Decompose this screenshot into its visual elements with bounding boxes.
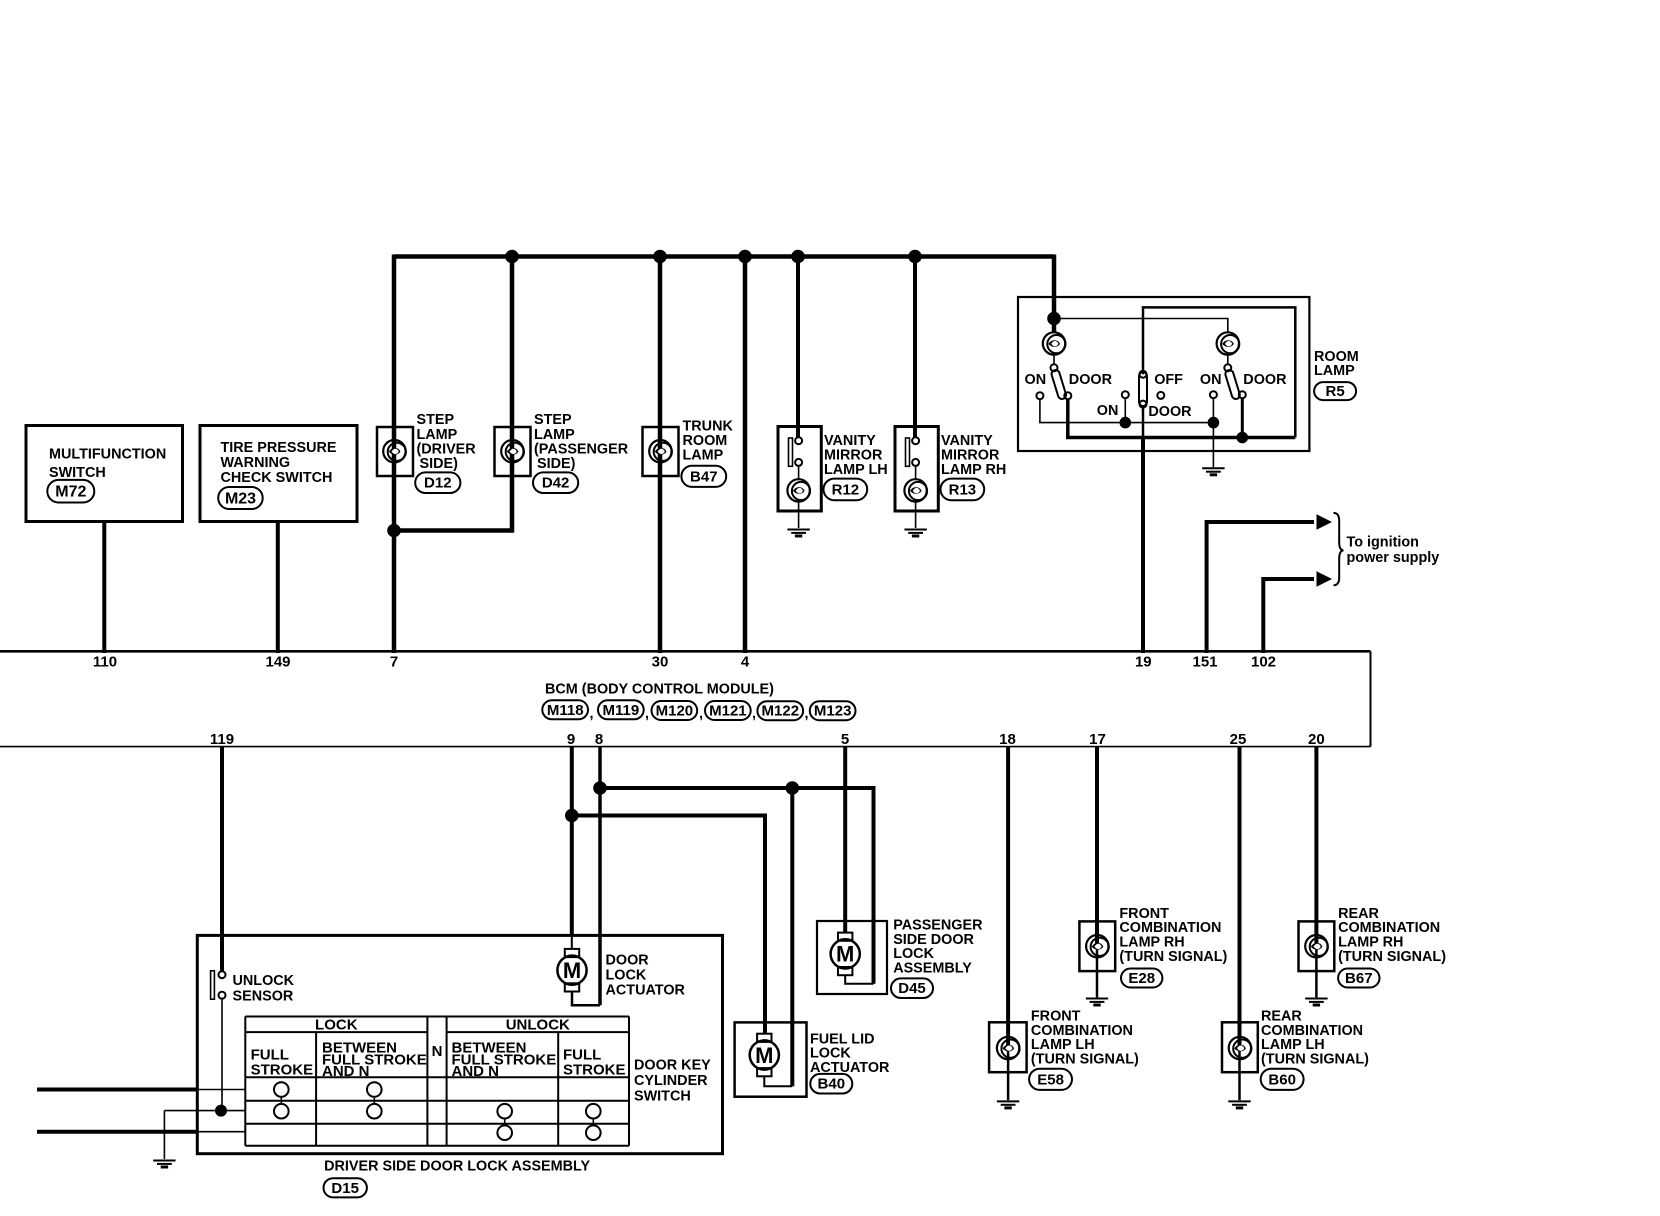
svg-text:19: 19 xyxy=(1135,654,1152,671)
svg-text:4: 4 xyxy=(741,654,750,671)
svg-text:D15: D15 xyxy=(331,1180,359,1197)
svg-text:M118: M118 xyxy=(547,702,584,719)
svg-text:R13: R13 xyxy=(949,482,977,499)
svg-text:AND N: AND N xyxy=(452,1063,500,1080)
svg-text:119: 119 xyxy=(210,731,234,748)
svg-text:ON: ON xyxy=(1097,403,1119,419)
svg-text:102: 102 xyxy=(1251,654,1276,671)
svg-text:LAMP: LAMP xyxy=(1314,363,1355,379)
svg-text:M72: M72 xyxy=(55,484,86,501)
svg-text:DOOR: DOOR xyxy=(1148,404,1192,420)
svg-text:20: 20 xyxy=(1308,731,1325,748)
svg-text:OFF: OFF xyxy=(1154,372,1183,388)
svg-text:,: , xyxy=(590,706,594,722)
svg-text:8: 8 xyxy=(595,731,603,748)
svg-text:SWITCH: SWITCH xyxy=(634,1089,691,1105)
svg-text:R5: R5 xyxy=(1326,383,1345,400)
svg-text:,: , xyxy=(752,706,756,722)
svg-text:(TURN SIGNAL): (TURN SIGNAL) xyxy=(1119,949,1227,965)
svg-text:UNLOCK: UNLOCK xyxy=(233,973,295,989)
svg-text:CHECK SWITCH: CHECK SWITCH xyxy=(221,470,333,486)
svg-text:BCM (BODY CONTROL MODULE): BCM (BODY CONTROL MODULE) xyxy=(545,682,774,698)
svg-text:AND N: AND N xyxy=(322,1063,370,1080)
svg-text:,: , xyxy=(805,706,809,722)
svg-text:5: 5 xyxy=(841,731,849,748)
svg-text:30: 30 xyxy=(652,654,669,671)
svg-text:151: 151 xyxy=(1192,654,1217,671)
svg-text:M122: M122 xyxy=(762,703,800,720)
svg-text:SWITCH: SWITCH xyxy=(49,465,106,481)
svg-text:E28: E28 xyxy=(1128,970,1155,987)
svg-text:D12: D12 xyxy=(424,475,452,492)
svg-text:LAMP: LAMP xyxy=(683,448,724,464)
svg-text:STEP: STEP xyxy=(534,412,572,428)
svg-text:M119: M119 xyxy=(603,702,640,719)
svg-text:B60: B60 xyxy=(1268,1072,1296,1089)
svg-text:power supply: power supply xyxy=(1347,550,1440,566)
svg-text:SENSOR: SENSOR xyxy=(233,989,294,1005)
svg-text:E58: E58 xyxy=(1037,1072,1064,1089)
svg-text:(TURN SIGNAL): (TURN SIGNAL) xyxy=(1261,1051,1369,1067)
svg-text:D42: D42 xyxy=(542,475,570,492)
svg-text:M121: M121 xyxy=(709,703,747,720)
svg-text:UNLOCK: UNLOCK xyxy=(506,1017,570,1034)
svg-text:ACTUATOR: ACTUATOR xyxy=(606,982,686,998)
svg-text:ASSEMBLY: ASSEMBLY xyxy=(893,960,972,976)
svg-text:TIRE PRESSURE: TIRE PRESSURE xyxy=(221,440,337,456)
svg-text:LOCK: LOCK xyxy=(606,967,647,983)
svg-text:To ignition: To ignition xyxy=(1347,535,1419,551)
svg-text:STROKE: STROKE xyxy=(563,1061,626,1078)
svg-text:D45: D45 xyxy=(898,980,926,997)
svg-text:LAMP LH: LAMP LH xyxy=(824,462,888,478)
svg-text:DOOR: DOOR xyxy=(1243,372,1287,388)
svg-text:B40: B40 xyxy=(818,1076,846,1093)
svg-text:B67: B67 xyxy=(1345,970,1373,987)
svg-text:110: 110 xyxy=(93,654,117,671)
svg-text:17: 17 xyxy=(1089,731,1106,748)
svg-text:,: , xyxy=(699,706,703,722)
svg-text:DRIVER SIDE DOOR LOCK ASSEMBLY: DRIVER SIDE DOOR LOCK ASSEMBLY xyxy=(324,1158,590,1174)
svg-text:LOCK: LOCK xyxy=(315,1017,358,1034)
svg-text:DOOR: DOOR xyxy=(1069,372,1113,388)
svg-text:M120: M120 xyxy=(656,703,694,720)
svg-text:SIDE): SIDE) xyxy=(537,456,576,472)
svg-text:DOOR: DOOR xyxy=(606,952,650,968)
svg-text:ON: ON xyxy=(1200,372,1222,388)
svg-text:MULTIFUNCTION: MULTIFUNCTION xyxy=(49,447,166,463)
svg-text:LAMP RH: LAMP RH xyxy=(941,462,1006,478)
svg-text:,: , xyxy=(645,706,649,722)
svg-text:9: 9 xyxy=(567,731,575,748)
svg-text:N: N xyxy=(432,1043,443,1060)
svg-text:R12: R12 xyxy=(832,482,860,499)
svg-text:B47: B47 xyxy=(690,469,718,486)
svg-text:7: 7 xyxy=(390,654,398,671)
svg-text:(TURN SIGNAL): (TURN SIGNAL) xyxy=(1031,1051,1139,1067)
svg-text:SIDE): SIDE) xyxy=(420,456,459,472)
svg-text:DOOR KEY: DOOR KEY xyxy=(634,1058,711,1074)
svg-text:STEP: STEP xyxy=(417,412,455,428)
svg-text:149: 149 xyxy=(265,654,290,671)
svg-text:STROKE: STROKE xyxy=(251,1061,314,1078)
svg-text:(TURN SIGNAL): (TURN SIGNAL) xyxy=(1338,949,1446,965)
svg-text:ON: ON xyxy=(1025,372,1047,388)
svg-text:18: 18 xyxy=(999,731,1016,748)
svg-text:25: 25 xyxy=(1230,731,1247,748)
svg-text:CYLINDER: CYLINDER xyxy=(634,1073,708,1089)
svg-text:M123: M123 xyxy=(814,703,852,720)
svg-text:M23: M23 xyxy=(225,490,256,507)
svg-text:WARNING: WARNING xyxy=(221,455,291,471)
